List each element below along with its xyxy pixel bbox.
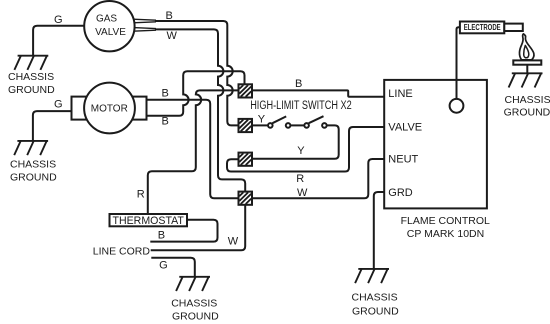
svg-text:VALVE: VALVE — [95, 27, 126, 38]
wire: switch output down to connector 3 — [252, 125, 339, 158]
switch contact circle 2 — [286, 123, 291, 128]
svg-text:R: R — [137, 189, 145, 201]
burner stem — [526, 65, 528, 74]
motor body rectangle — [72, 97, 147, 120]
svg-text:W: W — [297, 187, 308, 199]
gas valve lead fork top — [133, 19, 156, 23]
svg-text:LINE CORD: LINE CORD — [93, 245, 151, 257]
wire: GRD terminal to chassis ground 4 — [374, 192, 384, 269]
wire: motor ground wire G — [33, 111, 72, 141]
svg-text:HIGH-LIMIT SWITCH X2: HIGH-LIMIT SWITCH X2 — [250, 100, 352, 112]
svg-text:GROUND: GROUND — [504, 106, 550, 118]
svg-text:B: B — [162, 115, 169, 127]
switch contact circle 4 — [322, 123, 327, 128]
svg-text:VALVE: VALVE — [388, 122, 422, 134]
svg-text:CP MARK 10DN: CP MARK 10DN — [407, 228, 484, 240]
connector 4 (hatched W junction) — [239, 192, 253, 205]
wire: W from connector 4 to NEUT terminal — [252, 159, 384, 198]
ground: chassis ground 4 (flame control GRD) — [355, 269, 389, 283]
ground: chassis ground 5 (electrode) — [509, 73, 543, 87]
svg-text:GAS: GAS — [96, 14, 117, 25]
ground: chassis ground 2 (motor) — [14, 141, 48, 155]
svg-text:LINE: LINE — [388, 88, 412, 100]
wire: line cord W up to connector 4 — [151, 205, 246, 250]
electrode stem — [504, 24, 523, 31]
svg-text:CHASSIS: CHASSIS — [171, 297, 217, 309]
svg-text:FLAME CONTROL: FLAME CONTROL — [401, 215, 490, 227]
svg-text:B: B — [162, 87, 169, 99]
flame sensor circle inside box — [450, 99, 464, 113]
thermostat box — [110, 214, 188, 226]
svg-text:CHASSIS: CHASSIS — [505, 94, 550, 106]
switch contact circle 1 — [268, 123, 273, 128]
switch contact circle 3 — [304, 123, 309, 128]
flame control box — [384, 80, 487, 209]
flame outer — [519, 34, 534, 60]
switch arm 2 — [309, 116, 324, 123]
wire: R from connector 3 to VALVE terminal — [227, 127, 384, 172]
svg-text:B: B — [158, 229, 165, 241]
burner bar — [513, 60, 541, 64]
connector 3 (hatched) — [239, 153, 253, 166]
svg-text:G: G — [159, 259, 168, 271]
svg-text:MOTOR: MOTOR — [91, 103, 128, 114]
connector 2 (hatched) — [239, 119, 253, 132]
wire: thermostat B to line cord — [150, 220, 217, 242]
motor circle — [84, 83, 135, 134]
svg-text:R: R — [296, 173, 304, 185]
svg-text:B: B — [295, 78, 302, 90]
wire: motor bottom lead B up and over to connector 1 top — [147, 71, 245, 116]
svg-text:Y: Y — [297, 145, 305, 157]
gas valve lead fork bottom — [133, 28, 156, 32]
gas valve circle — [84, 1, 134, 51]
wire: gas valve green ground wire G — [33, 26, 84, 56]
switch arm 1 — [272, 116, 286, 123]
svg-text:GRD: GRD — [388, 187, 413, 199]
wire: B to LINE terminal — [252, 90, 384, 96]
wire: gas valve W lead down to W junction — [155, 29, 245, 191]
svg-text:NEUT: NEUT — [388, 154, 418, 166]
svg-text:CHASSIS: CHASSIS — [352, 292, 398, 304]
svg-text:G: G — [54, 14, 63, 26]
svg-text:GROUND: GROUND — [10, 171, 57, 183]
svg-text:GROUND: GROUND — [352, 306, 399, 318]
connector 1 (hatched) — [239, 84, 253, 97]
inner flame — [524, 45, 529, 57]
svg-text:CHASSIS: CHASSIS — [8, 71, 54, 83]
wire: connector 2 to switch contact 1 — [252, 124, 268, 126]
svg-text:B: B — [166, 10, 173, 22]
ground: chassis ground 1 (gas valve) — [14, 56, 48, 70]
ground: chassis ground 3 (line cord) — [176, 277, 210, 291]
svg-text:W: W — [167, 30, 178, 42]
electrode box — [460, 22, 504, 34]
svg-text:GROUND: GROUND — [172, 310, 219, 322]
wire: electrode lead down to sensor circle — [457, 27, 460, 99]
svg-text:GROUND: GROUND — [8, 84, 55, 96]
svg-text:ELECTRODE: ELECTRODE — [464, 23, 501, 32]
svg-text:Y: Y — [258, 114, 266, 126]
wire: thermostat riser R up to connector 1 left — [148, 90, 239, 214]
wire: line cord G to chassis ground 3 — [151, 258, 195, 277]
svg-text:CHASSIS: CHASSIS — [10, 158, 56, 170]
wire: gas valve B lead to connector, vertical with hops — [155, 21, 239, 125]
wire: motor top lead B to W junction — [147, 100, 239, 198]
svg-text:G: G — [54, 99, 63, 111]
wire between switch poles — [290, 124, 304, 126]
svg-text:THERMOSTAT: THERMOSTAT — [112, 215, 184, 227]
svg-text:W: W — [228, 235, 239, 247]
